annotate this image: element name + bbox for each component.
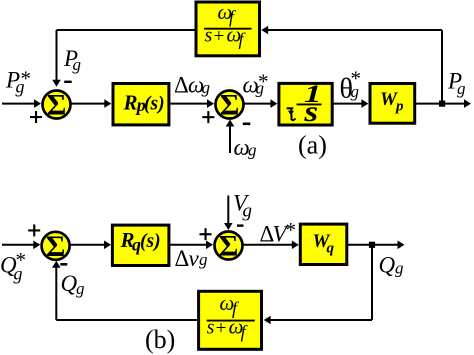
svg-text:s: s — [205, 24, 213, 46]
plus sign at S4 input — [200, 228, 212, 240]
block Wp — [370, 84, 415, 124]
wire: Wp to output Pg — [416, 99, 471, 108]
wire: integrator to Wp — [333, 99, 368, 108]
label Pg output — [447, 69, 466, 99]
summer S3 (Sigma) — [42, 230, 70, 263]
svg-text:Δ: Δ — [174, 73, 189, 98]
wire: S4 to Wq — [243, 241, 299, 250]
minus sign at S2 bottom input — [243, 123, 251, 126]
wire: input to summer S1 — [2, 99, 41, 108]
label Qg* input — [0, 248, 26, 283]
svg-text:Δ: Δ — [175, 246, 190, 271]
node junction on Pg output — [439, 101, 445, 107]
wire: S3 to Rq(s) — [70, 241, 111, 250]
svg-text:g: g — [395, 259, 404, 278]
block integrator 1/s — [279, 80, 332, 129]
plus sign at S2 input — [202, 111, 214, 123]
minus sign at S4 top input — [237, 224, 244, 226]
summer S1 (Sigma) — [43, 89, 71, 122]
svg-text:g: g — [199, 250, 208, 269]
label Pg* input — [5, 67, 31, 97]
svg-text:v: v — [189, 246, 200, 271]
label theta_g* — [340, 67, 362, 105]
plus sign at S1 input — [30, 111, 42, 123]
svg-text:g: g — [243, 200, 253, 221]
wire: S2 to integrator — [244, 99, 277, 108]
summer S4 (Sigma) — [215, 230, 243, 263]
svg-text:g: g — [202, 78, 211, 97]
svg-text:*: * — [351, 67, 362, 91]
wire: top feedback down into S1 — [52, 30, 61, 87]
summer S2 (Sigma) — [216, 89, 244, 122]
svg-text:g: g — [457, 79, 466, 98]
wire: Wq to output Qg — [348, 241, 405, 250]
label delta omega g — [174, 73, 210, 98]
wire: node up to top feedback row — [441, 30, 443, 104]
svg-text:Σ: Σ — [219, 230, 239, 263]
svg-text:*: * — [286, 218, 297, 242]
wire: S1 to Rp(s) — [71, 99, 111, 108]
label omega_g* — [243, 70, 269, 98]
svg-text:*: * — [258, 70, 269, 94]
wire: Rp(s) to summer S2 — [171, 99, 215, 108]
label Pg feedback — [63, 46, 81, 74]
wire: feedback up into S3 — [52, 261, 61, 320]
svg-text:Σ: Σ — [47, 89, 67, 122]
wire: Rq(s) to summer S4 — [170, 241, 214, 250]
wire: input to summer S3 — [2, 241, 40, 250]
label omega_g lower — [234, 135, 257, 160]
svg-text:(a): (a) — [298, 131, 327, 160]
svg-text:(b): (b) — [145, 325, 175, 354]
minus sign at S3 bottom input — [60, 263, 67, 266]
wire: top horizontal left segment from H1 to S1 — [57, 29, 197, 31]
svg-text:s: s — [303, 95, 318, 128]
svg-text:s: s — [207, 317, 215, 339]
svg-text:p: p — [394, 99, 404, 115]
svg-text:g: g — [76, 279, 85, 298]
svg-text:g: g — [73, 55, 82, 74]
block Rp(s) — [113, 84, 169, 125]
label delta v_g — [175, 246, 208, 271]
block H2: omega_f/(s+omega_f) bottom feedback filter — [199, 291, 262, 349]
wire: Vg down into S4 — [224, 196, 233, 231]
svg-text:+: + — [214, 26, 225, 47]
wire: bottom horizontal left segment from H2 — [56, 319, 198, 321]
label Qg output — [379, 252, 404, 277]
svg-text:R: R — [123, 91, 138, 115]
svg-text:*: * — [16, 248, 27, 272]
label Vg — [233, 191, 252, 222]
block Rq(s) — [112, 225, 168, 265]
svg-text:*: * — [21, 67, 32, 91]
svg-text:Σ: Σ — [46, 230, 66, 263]
wire: omega_g up into S2 — [226, 120, 235, 154]
label delta V* — [260, 218, 297, 247]
plus sign at S3 input — [28, 224, 40, 236]
wire: top horizontal right segment with arrow into filter H1 — [261, 26, 442, 35]
block H1: omega_f/(s+omega_f) top feedback filter — [196, 0, 260, 56]
svg-text:Q: Q — [379, 252, 396, 277]
wire: bottom horizontal right segment with arrow into filter H2 — [264, 316, 372, 325]
svg-text:q: q — [327, 241, 335, 257]
svg-text:(s): (s) — [144, 94, 165, 115]
svg-text:Q: Q — [61, 271, 78, 296]
label Qg feedback — [61, 271, 85, 298]
wire: node down to bottom feedback row — [371, 245, 373, 320]
svg-text:Σ: Σ — [220, 89, 240, 122]
svg-text:+: + — [216, 318, 227, 339]
minus sign at S1 top input — [64, 81, 72, 83]
svg-text:g: g — [248, 141, 257, 160]
node junction on Qg output — [369, 242, 375, 248]
svg-text:(s): (s) — [140, 231, 161, 252]
block Wq — [300, 224, 347, 264]
